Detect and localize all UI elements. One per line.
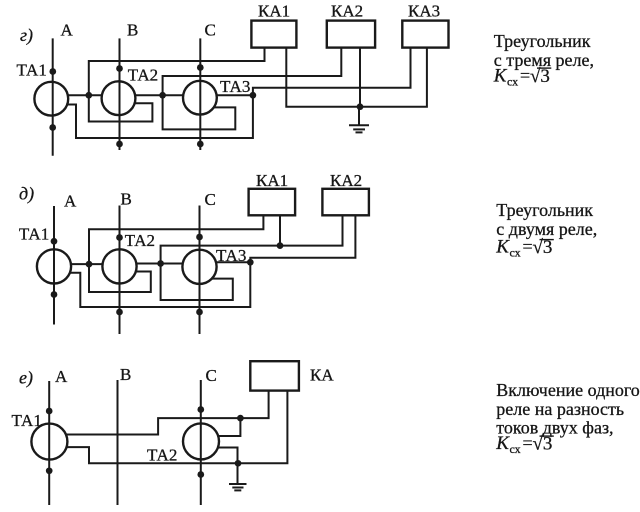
- svg-text:ТА2: ТА2: [147, 446, 177, 465]
- svg-text:реле на разность: реле на разность: [496, 399, 624, 419]
- phase B line: [119, 206, 121, 335]
- svg-text:КА1: КА1: [256, 171, 288, 190]
- svg-text:ТА3: ТА3: [220, 77, 250, 96]
- svg-text:КА3: КА3: [408, 2, 440, 21]
- wire KA3 right to common node: [360, 48, 427, 107]
- common junction node: [357, 103, 364, 110]
- svg-text:К: К: [495, 237, 510, 258]
- phase C line: [199, 206, 201, 335]
- dot on C above TA3: [197, 64, 204, 71]
- svg-text:КА2: КА2: [330, 171, 362, 190]
- dot on A below TA1: [49, 124, 56, 131]
- wire TA2 upper terminal to TA3 left: [136, 263, 184, 265]
- wire junction J1 to KA1 left: [89, 48, 265, 95]
- junction J1: [85, 92, 92, 99]
- svg-text:г): г): [20, 25, 33, 46]
- dot on B below TA2: [116, 141, 123, 148]
- svg-text:ТА2: ТА2: [128, 65, 158, 84]
- wire junction J1 to KA1 left: [89, 215, 263, 264]
- svg-text:сх: сх: [510, 442, 521, 456]
- wire junction J2 to KA2 left: [163, 48, 342, 95]
- svg-text:КА2: КА2: [331, 2, 363, 21]
- dot on B above TA2: [116, 65, 123, 72]
- junction J3: [250, 92, 257, 99]
- dot on B below TA2: [116, 309, 123, 316]
- junction at KA1 right: [277, 242, 284, 249]
- relay KA1 box: [249, 189, 296, 216]
- CT TA1 circle: [34, 82, 68, 116]
- wire KA2 right to J3: [250, 215, 355, 262]
- svg-text:К: К: [495, 433, 510, 454]
- svg-text:КА1: КА1: [258, 2, 290, 21]
- junction J1: [86, 261, 93, 268]
- svg-text:В: В: [127, 21, 138, 40]
- wire TA1 lower terminal along bottom to J3: [69, 262, 250, 307]
- svg-text:ТА1: ТА1: [19, 225, 49, 244]
- phase A line: [53, 206, 55, 325]
- caption for circuit g: [493, 31, 594, 89]
- dot on A above TA1: [51, 238, 58, 245]
- svg-text:токов двух фаз,: токов двух фаз,: [496, 418, 613, 438]
- dot on C above TA2: [197, 406, 204, 413]
- svg-text:С: С: [206, 366, 217, 385]
- svg-text:КА: КА: [310, 366, 334, 385]
- phase B line: [119, 38, 121, 150]
- svg-text:сх: сх: [510, 246, 521, 260]
- wire KA1 right leg: [279, 215, 281, 245]
- CT TA1 circle: [37, 249, 71, 283]
- dot on A below TA1: [51, 291, 58, 298]
- wire TA3 upper terminal to J3: [216, 94, 253, 96]
- svg-text:ТА1: ТА1: [17, 61, 47, 80]
- wire TA1 lower terminal along bottom to J3: [66, 95, 253, 138]
- CT TA2 circle: [102, 249, 136, 283]
- svg-text:В: В: [120, 365, 131, 384]
- CT TA3 circle: [182, 250, 216, 284]
- caption for circuit d: [495, 200, 597, 260]
- CT TA1 circle: [31, 424, 67, 460]
- relay KA3 box: [402, 21, 448, 48]
- phase C line: [200, 380, 202, 505]
- svg-text:д): д): [19, 184, 34, 205]
- dot on A above TA1: [49, 68, 56, 75]
- ground lead: [237, 463, 239, 484]
- relay KA2 box: [327, 21, 375, 48]
- junction bottom: [235, 460, 242, 467]
- wire TA1 upper terminal to TA2 left: [70, 263, 103, 265]
- wire J2 down loop to TA3 lower terminal: [161, 264, 233, 301]
- wire TA2 upper terminal to TA3 left: [134, 94, 184, 96]
- svg-text:Треугольник: Треугольник: [496, 200, 593, 220]
- svg-text:Включение одного: Включение одного: [496, 380, 640, 400]
- svg-text:е): е): [19, 368, 33, 389]
- svg-text:С: С: [205, 21, 216, 40]
- wire top junction down to TA2 upper terminal: [218, 418, 241, 436]
- CT TA2 circle: [102, 81, 136, 115]
- wire TA1 upper terminal to KA left: [65, 391, 268, 435]
- relay KA2 box: [322, 189, 369, 216]
- junction J2: [159, 92, 166, 99]
- phase C line: [199, 38, 201, 150]
- svg-text:С: С: [205, 190, 216, 209]
- wire J1 down loop to TA2 lower terminal: [89, 95, 153, 121]
- wire junction J2 to KA2 left: [161, 215, 343, 263]
- svg-text:=: =: [523, 433, 533, 453]
- phase B line: [117, 380, 119, 505]
- wire J3 to KA3 left: [253, 48, 411, 95]
- wire J2 down loop to TA3 lower terminal: [163, 95, 236, 129]
- caption for circuit e: [495, 380, 640, 456]
- dot on C below TA3: [197, 141, 204, 148]
- svg-text:Треугольник: Треугольник: [494, 31, 591, 51]
- ground lead: [358, 107, 360, 126]
- junction top: [237, 415, 244, 422]
- svg-text:=: =: [523, 237, 533, 257]
- wire TA3 upper terminal to J3: [215, 261, 250, 263]
- svg-text:А: А: [64, 192, 77, 211]
- svg-text:√3: √3: [530, 66, 550, 87]
- svg-text:В: В: [121, 190, 132, 209]
- wire J1 down loop to TA2 lower terminal: [89, 264, 151, 292]
- wire KA1 right to common node: [286, 48, 360, 107]
- junction J2: [157, 260, 164, 267]
- svg-text:ТА2: ТА2: [125, 231, 155, 250]
- dot on A above TA1: [46, 408, 53, 415]
- dot on B above TA2: [116, 234, 123, 241]
- relay KA box: [250, 361, 299, 390]
- svg-text:К: К: [493, 66, 508, 87]
- svg-text:сх: сх: [507, 75, 518, 89]
- svg-text:=: =: [520, 66, 530, 86]
- dot on A below TA1: [46, 467, 53, 474]
- ground symbol: [349, 125, 369, 132]
- dot on C below TA3: [196, 309, 203, 316]
- dot on C above TA3: [196, 234, 203, 241]
- svg-text:с двумя реле,: с двумя реле,: [496, 219, 597, 239]
- wire TA1 lower terminal along bottom to KA right: [66, 391, 287, 463]
- CT TA2 circle: [183, 423, 219, 459]
- dot on C below TA2: [197, 471, 204, 478]
- phase A line: [48, 381, 50, 505]
- wire KA2 right to common node: [359, 48, 361, 107]
- svg-text:А: А: [55, 367, 68, 386]
- CT TA3 circle: [183, 81, 217, 115]
- ground symbol: [229, 484, 247, 490]
- wire TA1 upper terminal to TA2 left: [67, 94, 103, 96]
- wire TA2 lower terminal down to bottom wire: [217, 448, 237, 464]
- svg-text:А: А: [61, 21, 74, 40]
- svg-text:ТА1: ТА1: [12, 411, 42, 430]
- relay KA1 box: [251, 21, 296, 48]
- phase A line: [52, 38, 54, 155]
- junction J3: [247, 259, 254, 266]
